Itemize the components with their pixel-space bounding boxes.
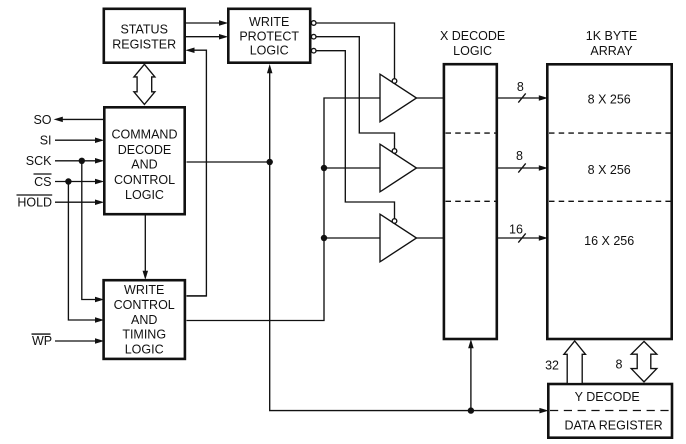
wire T3 output to X decode bbox=[417, 237, 445, 239]
dashed divider array row1/row2 bbox=[549, 132, 671, 134]
svg-text:DATA REGISTER: DATA REGISTER bbox=[565, 418, 663, 432]
label CS (overline) bbox=[34, 174, 52, 189]
svg-text:WP: WP bbox=[32, 334, 52, 348]
buffer T1 bbox=[380, 74, 417, 122]
svg-text:8 X 256: 8 X 256 bbox=[588, 163, 631, 177]
svg-text:CS: CS bbox=[34, 175, 51, 189]
wire T1 output to X decode bbox=[417, 97, 445, 99]
wire write control right to status register riser bbox=[187, 295, 207, 297]
svg-text:X DECODE: X DECODE bbox=[440, 29, 505, 43]
svg-text:LOGIC: LOGIC bbox=[125, 188, 164, 202]
enable bubble T3 bbox=[392, 219, 397, 224]
hollow double arrow status register / command decode bbox=[134, 64, 155, 104]
svg-text:AND: AND bbox=[131, 313, 157, 327]
wire status register to write protect (row 1) bbox=[186, 20, 228, 26]
bus X decode to array row1 bbox=[497, 80, 548, 103]
svg-text:SI: SI bbox=[40, 134, 52, 148]
svg-text:WRITE: WRITE bbox=[249, 15, 289, 29]
svg-text:CONTROL: CONTROL bbox=[114, 173, 175, 187]
dashed divider X decode row2/row3 bbox=[446, 200, 496, 202]
junction dot buffer feed T2 bbox=[321, 165, 327, 171]
box: WRITE PROTECT LOGIC bbox=[228, 9, 310, 63]
svg-text:LOGIC: LOGIC bbox=[250, 43, 289, 57]
wire CS branch down to write control bbox=[68, 182, 104, 323]
wire buffer feed to T3 input bbox=[324, 237, 380, 239]
wire CS into command decode bbox=[55, 179, 104, 185]
wire SO out of command decode bbox=[54, 117, 104, 123]
svg-text:AND: AND bbox=[131, 157, 157, 171]
enable bubble T1 bbox=[392, 79, 397, 84]
wire buffer feed to T2 input bbox=[324, 167, 380, 169]
output bubble WP row2 bbox=[311, 34, 316, 39]
svg-text:SO: SO bbox=[33, 113, 51, 127]
label HOLD (overline) bbox=[17, 195, 53, 210]
enable bubble T2 bbox=[392, 149, 397, 154]
wire SCK branch down to write control bbox=[82, 161, 104, 302]
wire junction down and right along bottom to Y decode bbox=[270, 162, 549, 413]
box: WRITE CONTROL AND TIMING LOGIC bbox=[104, 280, 185, 359]
wire WP bubble3 to T3 enable bbox=[316, 51, 395, 219]
buffer T2 bbox=[380, 144, 417, 192]
svg-text:LOGIC: LOGIC bbox=[125, 343, 164, 357]
svg-text:SCK: SCK bbox=[26, 154, 52, 168]
output bubble WP row1 bbox=[311, 21, 316, 26]
wire HOLD into command decode bbox=[55, 199, 104, 205]
wire SCK into command decode bbox=[55, 158, 104, 164]
box: STATUS REGISTER bbox=[104, 9, 185, 63]
svg-text:HOLD: HOLD bbox=[17, 196, 52, 210]
box: Y DECODE / DATA REGISTER bbox=[548, 384, 672, 438]
box: X DECODE LOGIC bbox=[440, 29, 505, 339]
svg-text:WRITE: WRITE bbox=[124, 283, 164, 297]
svg-text:Y DECODE: Y DECODE bbox=[575, 390, 640, 404]
box: COMMAND DECODE AND CONTROL LOGIC bbox=[104, 107, 184, 214]
bus X decode to array row3 bbox=[497, 223, 548, 243]
wire T2 output to X decode bbox=[417, 167, 445, 169]
svg-text:16: 16 bbox=[509, 223, 523, 237]
wire SI into command decode bbox=[55, 137, 104, 143]
wire command decode right to junction bbox=[187, 161, 270, 163]
dashed divider Y decode / data register bbox=[550, 410, 670, 412]
wire command decode down to write control bbox=[143, 216, 149, 280]
label WP (overline) bbox=[32, 334, 53, 348]
wire from write control up into status register bbox=[185, 47, 206, 295]
dashed divider array row2/row3 bbox=[549, 200, 671, 202]
wire WP bubble2 to T2 enable bbox=[316, 37, 395, 149]
svg-text:CONTROL: CONTROL bbox=[114, 298, 175, 312]
wire status register to write protect (row 2) bbox=[186, 34, 228, 40]
wire write control right to buffer feed riser bbox=[187, 98, 381, 321]
box: 1K BYTE ARRAY bbox=[547, 29, 671, 339]
wire branch up into X decode bottom bbox=[468, 339, 474, 411]
svg-text:8: 8 bbox=[516, 149, 523, 163]
svg-text:TIMING: TIMING bbox=[122, 328, 166, 342]
junction dot buffer feed T3 bbox=[321, 235, 327, 241]
svg-text:ARRAY: ARRAY bbox=[590, 44, 633, 58]
junction dot SCK bbox=[79, 158, 85, 164]
hollow double arrow 8 (array / Y decode) bbox=[631, 341, 657, 382]
output bubble WP row3 bbox=[311, 48, 316, 53]
svg-text:8: 8 bbox=[616, 358, 623, 372]
hollow arrow 32 (Y decode up to array) bbox=[564, 341, 586, 384]
svg-text:STATUS: STATUS bbox=[120, 22, 167, 36]
svg-text:DECODE: DECODE bbox=[118, 143, 171, 157]
svg-text:8 X 256: 8 X 256 bbox=[588, 93, 631, 107]
svg-text:LOGIC: LOGIC bbox=[453, 44, 492, 58]
svg-text:1K BYTE: 1K BYTE bbox=[586, 29, 637, 43]
wire WP into write control bbox=[55, 338, 104, 344]
wire WP bubble1 to T1 enable bbox=[316, 23, 395, 79]
junction dot at (269.7,162) bbox=[267, 159, 273, 165]
buffer T3 bbox=[380, 214, 417, 262]
bus X decode to array row2 bbox=[497, 149, 548, 173]
svg-text:8: 8 bbox=[517, 80, 524, 94]
junction dot at (470.9,410.6) bbox=[468, 407, 474, 413]
svg-text:COMMAND: COMMAND bbox=[112, 127, 178, 141]
wire junction up into write protect bottom bbox=[267, 64, 273, 162]
junction dot CS bbox=[65, 178, 71, 184]
svg-text:16 X 256: 16 X 256 bbox=[584, 234, 634, 248]
svg-text:PROTECT: PROTECT bbox=[239, 29, 299, 43]
svg-text:REGISTER: REGISTER bbox=[112, 37, 176, 51]
svg-text:32: 32 bbox=[545, 359, 559, 373]
dashed divider X decode row1/row2 bbox=[446, 132, 496, 134]
